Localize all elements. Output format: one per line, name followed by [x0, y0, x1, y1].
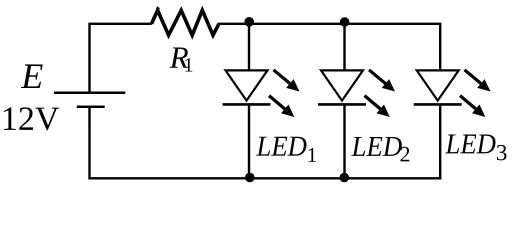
wire LED1 cathode down to node C — [248, 104, 250, 178]
node B junction dot — [340, 17, 350, 27]
wire battery+ up and along top rail to resistor — [90, 24, 152, 93]
wire battery- down and bottom rail to node C — [90, 107, 250, 179]
LED D3 light arrow 1 — [465, 70, 491, 92]
svg-text:E: E — [20, 56, 43, 96]
node A junction dot — [244, 17, 254, 27]
LED D3 light arrow 2 — [460, 96, 485, 117]
wire node C to node D — [250, 177, 344, 179]
LED D1 light arrow 2 — [269, 96, 294, 117]
battery E negative plate — [77, 106, 105, 109]
svg-text:LED: LED — [445, 128, 497, 160]
LED D2 cathode bar — [318, 103, 366, 106]
node C junction dot — [245, 173, 255, 183]
svg-text:3: 3 — [496, 140, 508, 165]
svg-text:LED: LED — [256, 131, 308, 163]
LED D2 light arrow 1 — [369, 70, 395, 92]
wire node A to node B — [249, 23, 345, 25]
wire resistor to node A — [218, 23, 249, 25]
LED D3 triangle — [417, 70, 459, 100]
LED D1 light arrow 1 — [274, 70, 300, 92]
svg-text:1: 1 — [184, 54, 194, 76]
wire node B down to LED2 anode — [343, 22, 345, 70]
svg-text:1: 1 — [307, 143, 318, 167]
LED D2 light arrow 2 — [365, 96, 390, 117]
wire LED2 cathode down to node D — [343, 104, 345, 178]
svg-text:2: 2 — [399, 141, 410, 166]
LED D1 cathode bar — [223, 103, 271, 106]
artifact dot on first resistor peak — [156, 7, 159, 10]
node D junction dot — [340, 173, 350, 183]
wire node B to top-right corner down to LED3 anode — [345, 24, 441, 71]
svg-text:LED: LED — [351, 131, 403, 163]
svg-text:12V: 12V — [1, 101, 60, 138]
LED D2 triangle — [321, 70, 363, 100]
resistor R1 — [152, 10, 219, 35]
wire node D to bottom-right corner — [344, 177, 441, 179]
battery E positive plate — [54, 91, 125, 94]
wire node A down to LED1 anode — [248, 22, 250, 70]
LED D1 triangle — [226, 70, 268, 100]
LED D3 cathode bar — [414, 103, 462, 106]
wire LED3 cathode down to bottom-right corner — [439, 104, 441, 178]
